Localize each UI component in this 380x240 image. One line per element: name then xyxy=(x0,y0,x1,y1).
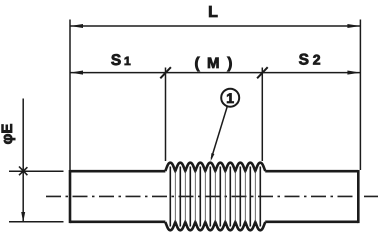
phiE arrow bottom xyxy=(21,212,25,222)
arrow S2 right xyxy=(347,71,360,75)
bellows bottom corrugation xyxy=(165,222,265,230)
extension line right (x=360.4) xyxy=(359,20,361,171)
balloon circle 1 xyxy=(221,89,239,107)
tube body xyxy=(70,170,358,223)
arrow L right xyxy=(347,24,360,28)
bellows top corrugation xyxy=(165,163,265,171)
phiE tick cross top xyxy=(19,167,27,175)
extension line left (x=70) xyxy=(69,20,71,171)
svg-text:1: 1 xyxy=(226,90,234,106)
svg-text:S: S xyxy=(111,52,121,69)
dimension line S1/(M)/S2 xyxy=(70,72,360,74)
phiE extension line bottom xyxy=(9,221,64,223)
balloon leader line xyxy=(211,107,227,159)
svg-text:S: S xyxy=(299,52,309,69)
extension line M-left (x=165.5) xyxy=(165,68,167,162)
extension line M-right (x=262.3) xyxy=(261,68,263,162)
svg-text:φE: φE xyxy=(0,124,16,145)
svg-text:(: ( xyxy=(195,55,201,72)
dimension line L xyxy=(70,25,360,27)
svg-text:2: 2 xyxy=(313,51,321,67)
bellows convolution verticals (bold, under crests) xyxy=(170,167,260,227)
phiE dimension line xyxy=(22,99,24,223)
arrow L left xyxy=(70,24,83,28)
oblique tick at M-left xyxy=(160,67,171,78)
balloon leader arrowhead xyxy=(211,153,215,161)
bellows convolution verticals (thin, at roots) xyxy=(175,171,255,222)
svg-text:L: L xyxy=(208,4,218,21)
arrow S1 left xyxy=(70,71,83,75)
svg-text:): ) xyxy=(227,55,232,72)
phiE extension line top xyxy=(9,170,64,172)
svg-text:M: M xyxy=(207,55,220,72)
svg-text:1: 1 xyxy=(124,54,131,68)
center line xyxy=(46,195,378,197)
oblique tick at M-right xyxy=(257,67,268,78)
